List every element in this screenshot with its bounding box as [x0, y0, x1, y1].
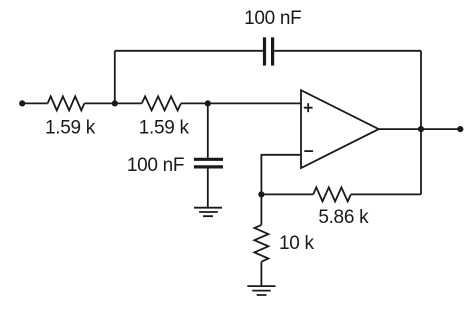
ground symbol under R4 [247, 286, 275, 295]
capacitor C2 100 nF bottom plate [194, 165, 223, 168]
svg-text:10 k: 10 k [279, 233, 315, 254]
wire right vertical down to feedback net [420, 51, 422, 195]
resistor R3 5.86 k [313, 187, 351, 201]
svg-text:100 nF: 100 nF [127, 155, 184, 176]
wire node C down to R4 [260, 194, 262, 225]
svg-text:100 nF: 100 nF [244, 8, 301, 29]
wire R4 to ground [260, 262, 262, 286]
capacitor C1 100 nF left plate [263, 37, 266, 65]
wire node B down to C2 [207, 103, 209, 157]
capacitor C2 100 nF top plate [194, 158, 223, 161]
wire node B to op-amp noninverting input [208, 102, 301, 104]
wire R3 to right vertical [351, 193, 421, 195]
wire C2 to ground [207, 168, 209, 207]
output junction dot [418, 126, 424, 132]
output terminal dot [457, 126, 463, 132]
node B junction dot [205, 100, 211, 106]
svg-text:1.59 k: 1.59 k [45, 118, 96, 139]
wire node C to R3 [261, 193, 313, 195]
wire top left to C1 [115, 50, 263, 52]
wire op-amp output [379, 128, 461, 130]
capacitor C1 100 nF right plate [271, 37, 274, 65]
svg-text:1.59 k: 1.59 k [139, 118, 190, 139]
wire input to R1 [22, 102, 47, 104]
ground symbol under C2 [194, 208, 222, 217]
op-amp minus input symbol [304, 150, 313, 152]
resistor R4 10 k [254, 225, 268, 262]
svg-text:5.86 k: 5.86 k [318, 207, 369, 228]
wire node A up to feedback top [114, 51, 116, 104]
op-amp plus input symbol [304, 103, 313, 112]
op-amp U1 triangle [301, 90, 379, 168]
wire R2 to node B [181, 102, 208, 104]
resistor R2 1.59 k [142, 96, 181, 110]
resistor R1 1.59 k [48, 96, 85, 110]
wire node A to R2 [115, 102, 142, 104]
wire R1 to node A [84, 102, 114, 104]
node A junction dot [112, 100, 118, 106]
wire op-amp inverting input [261, 155, 301, 195]
input terminal dot [19, 100, 25, 106]
wire C1 to right vertical [274, 50, 421, 52]
node C junction dot [258, 191, 264, 197]
